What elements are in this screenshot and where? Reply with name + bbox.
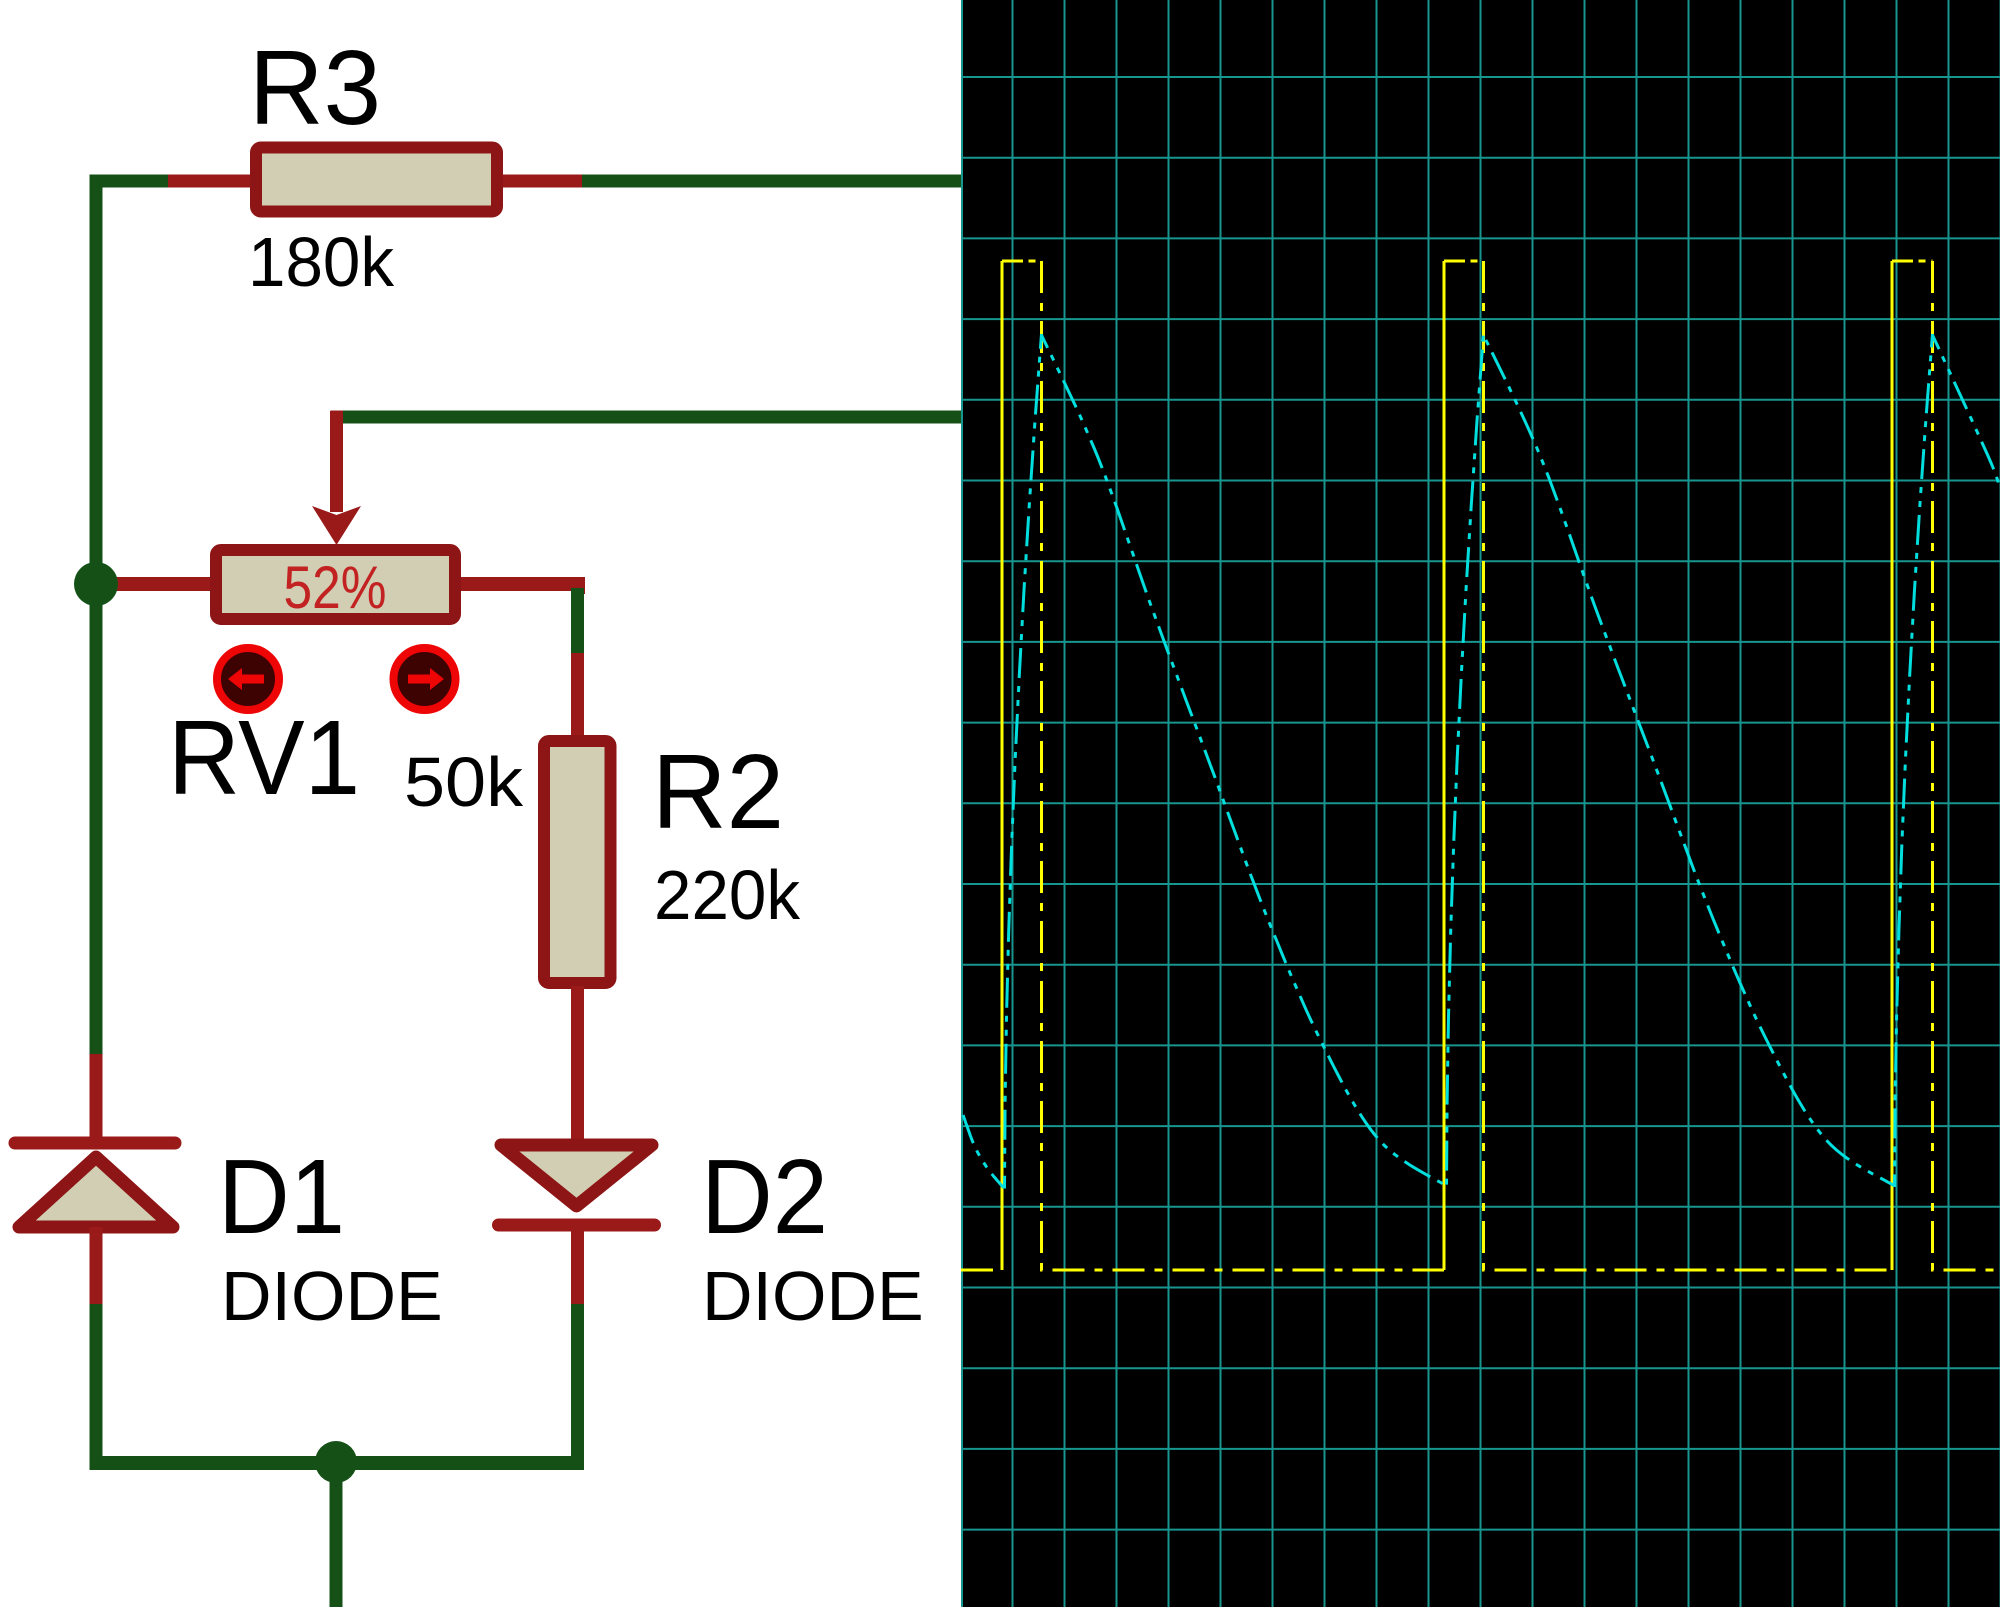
svg-text:R2: R2	[652, 733, 784, 851]
svg-text:R3: R3	[249, 29, 381, 147]
svg-text:52%: 52%	[284, 554, 387, 621]
diode D2 cathode bar	[499, 1219, 655, 1232]
svg-text:180k: 180k	[248, 223, 395, 301]
resistor R3 body	[256, 148, 497, 212]
RV1 increment button	[394, 648, 456, 710]
wire: D1 anode down	[90, 1304, 103, 1463]
trace: square wave pulse tops (dashed)	[1002, 260, 1933, 263]
wire: output stub down	[330, 1462, 343, 1607]
svg-text:RV1: RV1	[168, 699, 360, 817]
RV1 decrement button	[217, 648, 279, 710]
svg-text:220k: 220k	[654, 856, 801, 934]
svg-text:DIODE: DIODE	[221, 1257, 443, 1335]
wire: R3 to scope input (top rail)	[582, 175, 961, 188]
diode D1 body	[19, 1157, 173, 1227]
diode D1 anode pin	[90, 1227, 103, 1306]
junction node A	[74, 562, 118, 606]
oscilloscope grid	[962, 0, 2000, 1607]
resistor R2 bottom pin	[571, 986, 584, 1146]
wire: left vertical from node A down to D1	[90, 578, 103, 1058]
trace: sawtooth waveform (dash-dot-dot cyan)	[963, 334, 2000, 1187]
diode D1 cathode bar	[15, 1137, 175, 1150]
svg-text:D2: D2	[701, 1138, 828, 1256]
wire: bottom rail	[90, 1456, 585, 1470]
svg-text:D1: D1	[218, 1138, 345, 1256]
junction node B	[315, 1441, 357, 1483]
wire: top-left corner V rail	[96, 181, 172, 590]
resistor R2 top pin	[571, 653, 584, 742]
trace: square wave rising edges (solid)	[1002, 261, 1892, 1270]
svg-text:50k: 50k	[404, 743, 524, 821]
potentiometer RV1 wiper arrow	[331, 411, 344, 512]
potentiometer RV1 right pin	[458, 584, 585, 594]
trace: square wave falling edges and baseline (dash-dot)	[961, 261, 2000, 1270]
diode D2 bottom pin	[571, 1225, 584, 1308]
resistor R2 body	[544, 741, 611, 983]
wire: feedback rail to RV1 wiper	[338, 411, 961, 424]
wire: RV1 to R2	[571, 588, 584, 657]
oscilloscope background	[961, 0, 2000, 1607]
diode D2 anode body	[501, 1145, 652, 1206]
potentiometer RV1 left pin	[104, 577, 214, 591]
diode D1 top pin (cathode)	[90, 1054, 103, 1140]
resistor R3 left pin	[168, 175, 252, 188]
resistor R3 right pin	[501, 175, 584, 188]
wire: D2 cathode down	[571, 1304, 584, 1463]
svg-text:DIODE: DIODE	[702, 1257, 924, 1335]
potentiometer RV1 body	[216, 550, 455, 619]
